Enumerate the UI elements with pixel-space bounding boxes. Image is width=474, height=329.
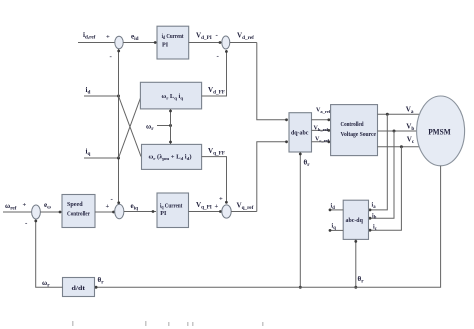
wire V_d_ref vertical down: [257, 43, 288, 120]
block dq-abc: [289, 113, 312, 152]
junction dot id line: [117, 95, 120, 98]
arrowhead into abc-dq bottom: [354, 240, 357, 243]
wire diagonal id to lower FF block: [119, 96, 142, 157]
svg-text:Controlled: Controlled: [341, 121, 364, 128]
svg-text:Vb_ref: Vb_ref: [314, 126, 329, 132]
wire V_q_ref up into dq-abc: [257, 142, 288, 212]
arrowhead ia into abc-dq: [369, 209, 372, 212]
block d/dt: [63, 278, 95, 297]
svg-text:d/dt: d/dt: [72, 285, 87, 292]
svg-text:abc-dq: abc-dq: [346, 218, 364, 224]
summing junction S1 (d-current error): [115, 36, 123, 49]
svg-text:PI: PI: [160, 211, 167, 217]
arrowhead ic into abc-dq: [369, 229, 372, 232]
wire diagonal iq to upper FF block: [119, 97, 142, 159]
faint cropped caption marks: [72, 321, 264, 326]
svg-text:+: +: [106, 203, 110, 210]
junction dot theta line at abc-dq: [354, 286, 357, 289]
junction dot phase C: [400, 145, 403, 148]
summing junction S4 (Vq combine): [222, 205, 231, 218]
block wr(lpm + Ld id) feed-forward: [142, 144, 202, 169]
junction dot wr line: [169, 124, 172, 127]
svg-text:Controller: Controller: [67, 212, 90, 218]
svg-text:Speed: Speed: [67, 202, 83, 208]
wire V_c_ref: [312, 141, 331, 143]
wire Speed Controller to S5: [95, 211, 115, 213]
svg-text:Voltage Source: Voltage Source: [341, 131, 377, 138]
arrowhead into S5 top: [117, 201, 120, 204]
wire phase C to PMSM: [378, 146, 420, 148]
junction dot theta line at dq-abc: [299, 286, 302, 289]
wire wr vertical to both FF blocks: [170, 109, 172, 144]
arrowhead theta into d/dt: [95, 286, 98, 289]
wire theta feedback from PMSM: [96, 166, 441, 287]
arrowhead into S4 top: [225, 201, 228, 204]
svg-text:+: +: [219, 196, 223, 203]
wire w_r feedback to speed summing: [36, 220, 63, 288]
wire id output stub: [330, 209, 343, 211]
wire Vq_FF output down to S4: [202, 157, 227, 203]
svg-text:PMSM: PMSM: [428, 127, 451, 137]
svg-text:+: +: [23, 202, 27, 209]
wire theta_r into dq-abc bottom: [299, 152, 301, 287]
svg-text:+: +: [106, 34, 110, 41]
svg-text:ωr (λpm + Ld id): ωr (λpm + Ld id): [149, 154, 192, 161]
wire theta_r into abc-dq bottom: [355, 239, 357, 287]
wire Vd_FF output up to S2: [202, 50, 227, 96]
arrowhead into S5 left: [112, 211, 115, 214]
arrowhead ib into abc-dq: [369, 217, 372, 220]
wire ib current tap: [370, 131, 394, 218]
arrowhead into S4 left: [219, 210, 222, 213]
wire id measured input: [84, 95, 119, 97]
arrowhead id stub: [329, 209, 332, 212]
block iq Current PI: [157, 193, 189, 228]
arrowhead iq stub: [329, 229, 332, 232]
arrowhead into S2 bottom: [225, 50, 228, 53]
wire id,ref input: [78, 42, 115, 44]
wire phase B to PMSM: [378, 130, 417, 132]
arrowhead into dq-abc lower input: [285, 140, 288, 143]
junction dot iq line: [117, 157, 120, 160]
junction dot phase B: [393, 130, 396, 133]
svg-text:PI: PI: [162, 42, 169, 48]
block wr Lq iq feed-forward: [140, 82, 201, 109]
wire S2 output V_d_ref to right: [230, 42, 257, 44]
arrowhead V_c_ref into CVS: [327, 140, 330, 143]
svg-text:+: +: [215, 203, 219, 210]
block id Current PI: [157, 26, 189, 59]
svg-text:Va_ref: Va_ref: [316, 108, 331, 114]
wire w_ref input: [3, 211, 32, 213]
block Speed Controller: [62, 195, 95, 228]
arrowhead into dq-abc bottom: [299, 153, 302, 156]
wire V_b_ref: [312, 129, 331, 131]
arrowhead into S3 bottom: [34, 220, 37, 223]
arrowhead into id Current PI: [154, 41, 157, 44]
summing junction S2 (Vd combine): [222, 36, 230, 49]
arrowhead into upper FF block bottom: [169, 110, 172, 113]
wire S1 to id Current PI block: [123, 42, 157, 44]
arrowhead into iq Current PI: [152, 210, 155, 213]
wire wr input arrow: [157, 125, 171, 127]
wire S3 to Speed Controller: [40, 211, 62, 213]
summing junction S3 (speed error): [32, 205, 41, 219]
wire id/iq feedback vertical: [118, 49, 120, 204]
block Controlled Voltage Source: [331, 105, 378, 156]
wire iq measured input: [84, 157, 119, 159]
arrowhead into Speed Controller: [59, 211, 62, 214]
wire S5 to iq Current PI: [124, 211, 156, 213]
svg-text:Vc_ref: Vc_ref: [315, 137, 330, 143]
junction dot phase A: [386, 113, 389, 116]
arrowhead V_b_ref into CVS: [327, 129, 330, 132]
arrowhead into lower FF block top: [169, 141, 172, 144]
wire V_a_ref: [312, 119, 331, 121]
svg-text:dq-abc: dq-abc: [291, 131, 309, 137]
wire phase A to PMSM: [378, 113, 420, 115]
wire ic current tap: [370, 147, 401, 230]
block abc-dq: [343, 200, 368, 239]
arrowhead into S2 left: [219, 41, 222, 44]
wire iq PI output to S4: [189, 211, 222, 213]
arrowhead into S1 bottom: [117, 50, 120, 53]
summing junction S5 (q-current error): [115, 204, 124, 218]
arrowhead into dq-abc upper input: [285, 118, 288, 121]
wire iq output stub: [330, 229, 343, 231]
wire S4 output V_q_ref: [231, 211, 257, 213]
svg-text:ωr Lq iq: ωr Lq iq: [162, 93, 184, 100]
wire id PI output to S2: [189, 42, 222, 44]
motor PMSM: [417, 96, 465, 166]
arrowhead V_a_ref into CVS: [327, 118, 330, 121]
wire ia current tap: [370, 114, 387, 210]
